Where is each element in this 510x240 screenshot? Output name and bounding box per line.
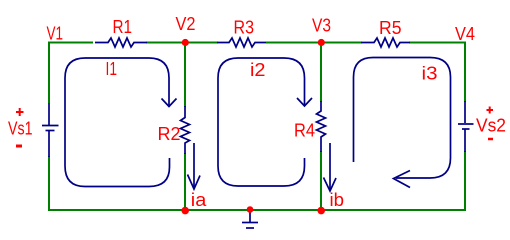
wire V2 branch above R2 [184,43,186,108]
branch current arrow ia [188,143,201,189]
branch current arrow ib [324,143,337,191]
resistor R3 [217,38,266,47]
resistor R5 [361,38,410,47]
resistor R4 [317,101,326,152]
wire V3 branch below R4 [320,151,322,210]
svg-text:R4: R4 [294,121,315,141]
ground [242,212,258,228]
wire bottom [48,209,465,211]
label Vs1 plus [16,108,24,116]
wire top: R3 to R5 through node V3 [266,42,362,44]
mesh current loop i3 [354,58,451,188]
svg-text:V3: V3 [312,15,331,35]
svg-text:V2: V2 [176,14,196,34]
node b dot (bottom below V3) [317,207,325,215]
svg-text:Vs1: Vs1 [8,119,33,139]
svg-text:i3: i3 [422,64,438,84]
svg-text:V1: V1 [47,24,64,44]
svg-text:R3: R3 [234,18,255,38]
wire top-left: V1 corner to R1 [49,43,93,104]
svg-text:I1: I1 [106,59,118,79]
wire top: R1 to R3 through node V2 [146,42,218,44]
wire V2 branch below R2 [184,153,186,210]
mesh current loop i2 [218,58,312,186]
node V2 dot [182,39,189,46]
wire left below Vs1 [48,156,50,211]
resistor R1 [95,38,147,47]
node V3 dot [318,39,325,46]
svg-text:Vs2: Vs2 [476,116,506,136]
svg-text:V4: V4 [455,24,475,44]
node a dot (bottom below V2) [181,207,189,215]
voltage source Vs2 [458,101,474,152]
svg-text:ib: ib [330,190,345,210]
label Vs1 minus [16,145,22,148]
wire right below Vs2 [464,151,466,211]
wire top-right: R5 to V4 corner down to Vs2 [409,43,465,103]
label Vs2 plus [487,107,494,114]
voltage source Vs1 [42,103,59,157]
wire V3 branch above R4 [320,43,322,103]
ground node dot [247,206,254,213]
mesh current loop I1 [65,58,177,187]
svg-text:R2: R2 [158,124,181,144]
resistor R2 [181,106,190,154]
svg-text:ia: ia [191,190,208,210]
svg-text:i2: i2 [250,60,266,80]
svg-text:R1: R1 [113,17,133,37]
svg-text:R5: R5 [379,18,402,38]
label Vs2 minus [488,138,493,141]
